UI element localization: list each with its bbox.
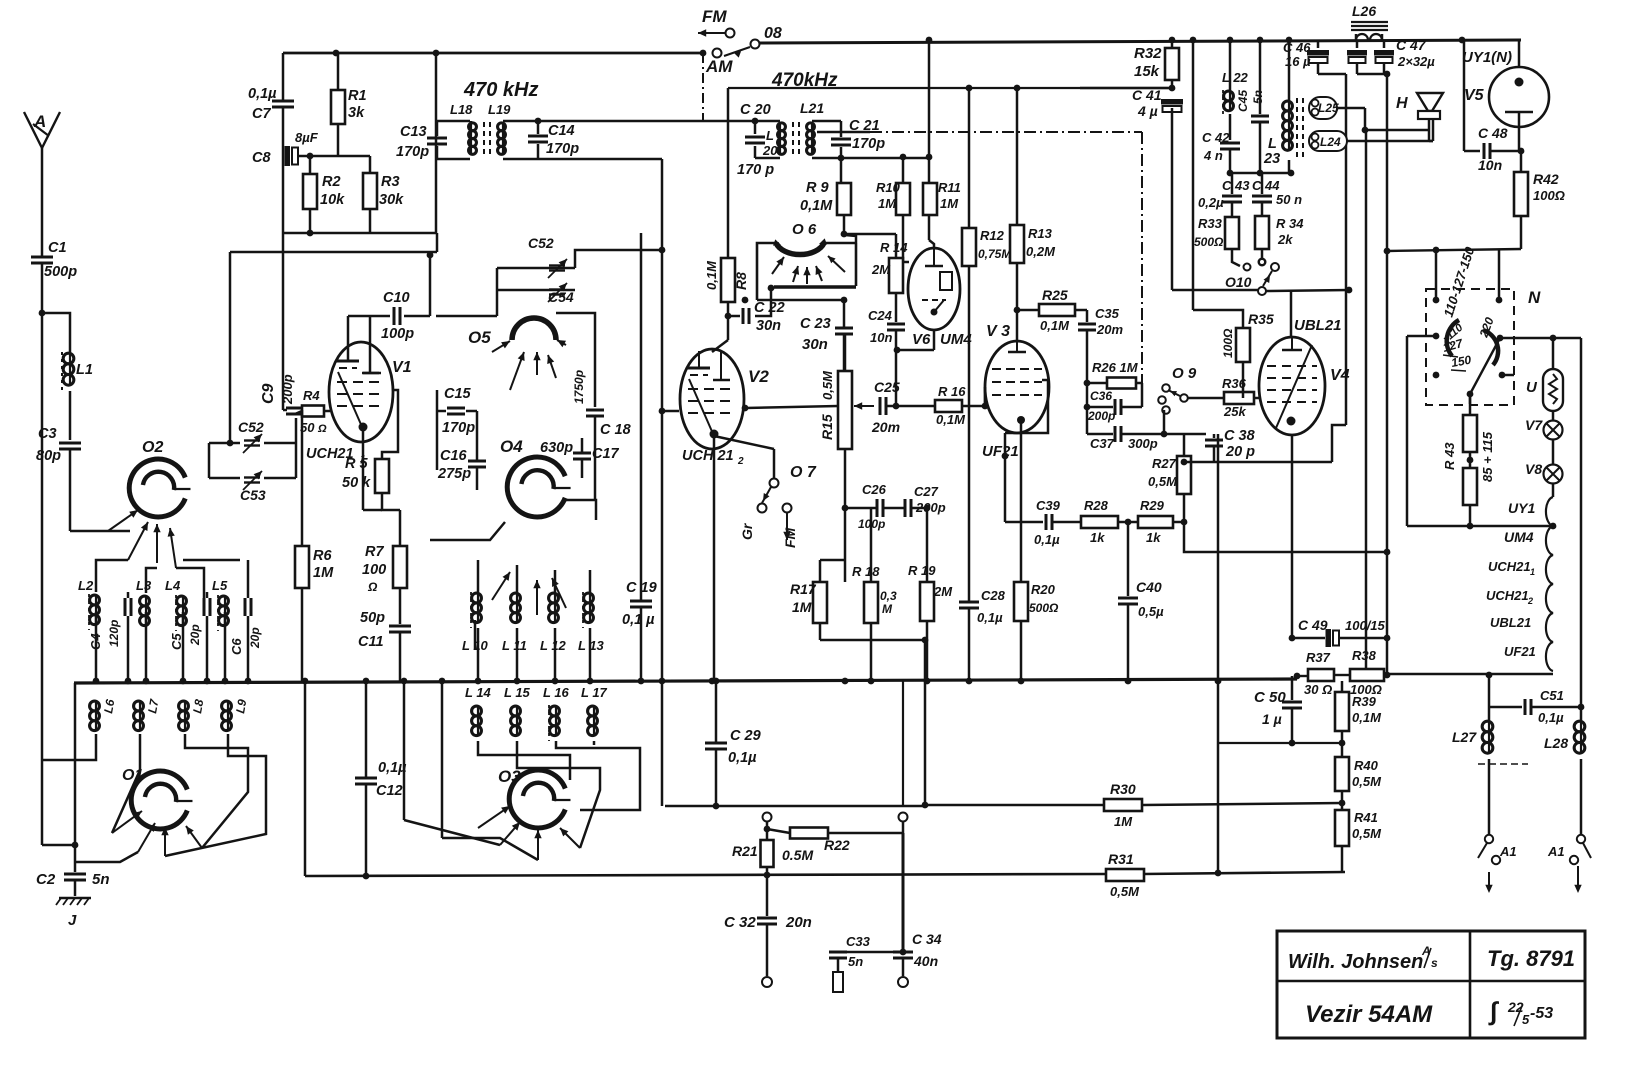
svg-text:UCH 21: UCH 21 (682, 448, 734, 464)
svg-text:20p: 20p (248, 627, 262, 649)
wire O10 out (1172, 289, 1258, 292)
capacitor C20 170p (752, 118, 759, 125)
svg-text:R40: R40 (1354, 758, 1379, 773)
svg-text:0,1M: 0,1M (1040, 318, 1070, 333)
svg-text:C27: C27 (914, 484, 939, 499)
O5 arrows (536, 352, 538, 375)
resistor R17 1M (844, 508, 847, 582)
svg-text:0,5M: 0,5M (1352, 826, 1382, 841)
svg-text:C 23: C 23 (800, 316, 831, 332)
capacitor C16 275p (468, 460, 486, 463)
svg-text:L4: L4 (165, 578, 181, 593)
svg-text:0,75M: 0,75M (978, 247, 1012, 261)
coil L15 (511, 706, 521, 716)
capacitor C19 0.1u (640, 233, 643, 600)
svg-text:R 5: R 5 (345, 456, 369, 472)
svg-text:A1: A1 (1547, 844, 1565, 859)
capacitor C29 0.1u (715, 683, 718, 742)
svg-text:L25: L25 (1318, 101, 1339, 115)
svg-text:Gr: Gr (739, 522, 755, 540)
svg-text:5: 5 (1522, 1012, 1530, 1027)
svg-text:V6: V6 (912, 331, 931, 348)
wire C8 down (282, 156, 285, 410)
tube V3 UF21 (985, 341, 1049, 433)
wire middle verticals (661, 159, 664, 806)
svg-text:1750p: 1750p (572, 370, 586, 404)
svg-text:V1: V1 (392, 359, 412, 376)
svg-text:C1: C1 (48, 240, 67, 256)
capacitor C46 16u (1317, 40, 1320, 48)
resistor R14 2M (889, 258, 903, 293)
svg-text:170p: 170p (546, 141, 579, 157)
svg-text:L5: L5 (212, 578, 228, 593)
svg-text:300p: 300p (1128, 436, 1158, 451)
capacitor C50 1u (1291, 676, 1294, 700)
svg-text:C39: C39 (1036, 498, 1061, 513)
switch A1 left (1485, 835, 1493, 843)
svg-text:2M: 2M (871, 262, 891, 277)
svg-text:10n: 10n (1478, 157, 1502, 173)
svg-text:R 34: R 34 (1276, 216, 1304, 231)
selector contacts (1433, 297, 1440, 304)
capacitor C6 20p (244, 598, 247, 616)
wire R29 to right (1184, 522, 1387, 552)
wire V1 cathode (362, 430, 365, 510)
svg-text:L 11: L 11 (502, 638, 527, 653)
resistor R10 1M (902, 157, 905, 183)
capacitors C39 R28 R29 row (1005, 521, 1043, 524)
resistor R29 1k (1138, 516, 1173, 528)
svg-text:L2: L2 (78, 578, 94, 593)
wire top rail left (283, 52, 700, 55)
capacitor C10 100p (393, 307, 396, 325)
svg-text:L 12: L 12 (540, 638, 567, 653)
heater chain (1552, 483, 1555, 497)
svg-text:Vezir 54AM: Vezir 54AM (1305, 1001, 1433, 1028)
svg-text:C52: C52 (238, 419, 264, 435)
tube V5 UY1 (1489, 67, 1549, 127)
svg-text:C 34: C 34 (912, 931, 942, 947)
svg-text:R25: R25 (1042, 287, 1068, 303)
svg-text:0,5M: 0,5M (1148, 474, 1178, 489)
svg-text:C14: C14 (548, 123, 575, 139)
svg-text:1k: 1k (1090, 530, 1105, 545)
svg-text:R3: R3 (381, 174, 400, 190)
svg-text:0,1M: 0,1M (1352, 710, 1382, 725)
svg-text:N: N (1528, 288, 1541, 307)
svg-text:0,1µ: 0,1µ (378, 760, 407, 776)
svg-text:0,1µ: 0,1µ (248, 86, 277, 102)
svg-text:C11: C11 (358, 634, 384, 650)
coil L1 (63, 353, 74, 364)
svg-text:30n: 30n (756, 318, 781, 334)
svg-text:1 µ: 1 µ (1262, 711, 1282, 727)
lamp V8 (1544, 465, 1563, 484)
O9 wiring (1086, 383, 1089, 407)
IF2 core (792, 122, 794, 156)
svg-text:R10: R10 (876, 180, 901, 195)
svg-text:50 n: 50 n (1276, 192, 1302, 207)
resistor R18 0.3M (870, 508, 873, 582)
svg-text:170p: 170p (396, 144, 429, 160)
svg-text:O5: O5 (468, 328, 491, 347)
capacitor C47 2x32u (1356, 40, 1359, 48)
svg-text:R12: R12 (980, 228, 1005, 243)
O6 wiring (757, 299, 844, 302)
svg-text:C 38: C 38 (1224, 428, 1256, 444)
svg-text:100Ω: 100Ω (1221, 328, 1235, 358)
wire y252 to left trimmers (230, 251, 437, 254)
svg-text:C12: C12 (376, 783, 403, 799)
capacitor C41 4u (1161, 99, 1183, 105)
wire R15 bottom (844, 460, 847, 508)
V4 wiring (1290, 290, 1293, 337)
svg-text:s: s (1431, 956, 1438, 970)
selector arcs (1447, 320, 1459, 356)
svg-text:R22: R22 (824, 837, 850, 853)
svg-text:L 17: L 17 (581, 685, 608, 700)
svg-text:UM4: UM4 (1504, 529, 1534, 545)
capacitor C22 30n (725, 313, 732, 320)
svg-text:R2: R2 (322, 174, 341, 190)
coil L18 (436, 120, 470, 123)
svg-text:C 29: C 29 (730, 728, 761, 744)
coil L6 (90, 701, 100, 711)
wire left vertical to C2 (42, 844, 75, 847)
svg-text:C 22: C 22 (754, 300, 785, 316)
svg-text:C 43: C 43 (1222, 178, 1250, 193)
svg-text:R 18: R 18 (852, 564, 880, 579)
selector box dashed (1426, 289, 1514, 405)
capacitor C7 0.1u (282, 53, 285, 100)
L24 wiring (1347, 140, 1433, 143)
resistor R39 0.1M (1341, 681, 1344, 692)
svg-text:R15: R15 (819, 414, 835, 440)
bus y876 (305, 874, 1106, 876)
title block (1277, 931, 1585, 1038)
resistor R35 100ohm (1236, 328, 1250, 362)
O4 wiring (430, 522, 505, 540)
svg-text:80p: 80p (36, 448, 61, 464)
svg-text:R13: R13 (1028, 226, 1053, 241)
svg-text:1M: 1M (878, 196, 897, 211)
svg-text:R 9: R 9 (806, 180, 829, 196)
svg-text:C16: C16 (440, 448, 468, 464)
svg-text:C 50: C 50 (1254, 689, 1286, 706)
svg-text:Ω: Ω (317, 423, 327, 435)
capacitor C40 0.5u (1127, 522, 1130, 596)
svg-text:L9: L9 (233, 698, 249, 715)
svg-text:30 Ω: 30 Ω (1304, 682, 1332, 697)
svg-text:30k: 30k (379, 192, 404, 208)
trimmer C52 (497, 267, 575, 270)
svg-text:R29: R29 (1140, 498, 1165, 513)
svg-text:C15: C15 (444, 386, 472, 402)
coil L3 (140, 596, 150, 606)
svg-text:R7: R7 (365, 544, 384, 560)
svg-text:50p: 50p (360, 610, 385, 626)
coil L19 (498, 123, 506, 131)
svg-text:C40: C40 (1136, 579, 1162, 595)
capacitor C27 200p (904, 499, 907, 517)
wire AM dashdot (702, 53, 704, 121)
svg-text:V2: V2 (748, 367, 769, 386)
capacitor C21 170p (831, 138, 851, 141)
svg-text:1k: 1k (1146, 530, 1161, 545)
coil L2 (90, 595, 100, 605)
svg-text:C3: C3 (38, 426, 57, 442)
svg-text:L26: L26 (1352, 3, 1376, 19)
wire x1366 speaker return (1365, 130, 1368, 675)
svg-text:20: 20 (762, 143, 778, 158)
svg-text:C 42: C 42 (1202, 130, 1230, 145)
svg-text:0,5M: 0,5M (1110, 884, 1140, 899)
capacitor C37 300p (1086, 407, 1089, 434)
svg-text:25k: 25k (1223, 404, 1246, 419)
svg-text:0,5M: 0,5M (820, 370, 835, 400)
svg-text:20n: 20n (785, 914, 812, 931)
svg-text:U: U (1526, 379, 1538, 396)
coil L9 (222, 701, 232, 711)
bottom right rail (1297, 675, 1308, 677)
svg-text:R33: R33 (1198, 216, 1223, 231)
resistor R30 1M (925, 804, 1104, 807)
capacitor C4 120p (124, 598, 127, 616)
svg-text:C28: C28 (981, 588, 1006, 603)
resistor R7 100ohm (393, 546, 407, 588)
switch O5 arc (512, 318, 556, 340)
svg-text:R41: R41 (1354, 810, 1378, 825)
svg-text:1M: 1M (1114, 814, 1133, 829)
resistor R22 (767, 829, 790, 833)
wire top rail right (759, 40, 1521, 43)
resistor R34 2k (1255, 216, 1269, 249)
resistor R19 2M (926, 508, 929, 582)
svg-text:C 41: C 41 (1132, 87, 1162, 103)
svg-text:C26: C26 (862, 482, 887, 497)
resistor R42 100ohm (1520, 151, 1523, 172)
svg-text:1: 1 (1530, 567, 1535, 577)
svg-text:O 6: O 6 (792, 221, 817, 238)
svg-text:5n: 5n (848, 954, 863, 969)
svg-text:5n: 5n (92, 871, 110, 888)
svg-text:L6: L6 (101, 698, 117, 715)
svg-text:R21: R21 (732, 843, 758, 859)
svg-text:20p: 20p (188, 624, 202, 646)
svg-text:R6: R6 (313, 548, 332, 564)
svg-text:V 3: V 3 (986, 323, 1010, 340)
wire selector rail (1387, 249, 1521, 251)
capacitor C38 20p (1184, 433, 1206, 436)
dashed mark (1478, 763, 1528, 765)
wire x1346 plate feed (1345, 74, 1348, 425)
O1 arrows (112, 811, 142, 833)
capacitor C44 50n (1261, 173, 1264, 194)
tube V2 UCH21-2 (680, 349, 744, 449)
resistor R5 50k (382, 390, 398, 459)
svg-text:1M: 1M (313, 565, 334, 581)
svg-text:C51: C51 (1540, 688, 1564, 703)
svg-text:C25: C25 (874, 379, 900, 395)
resistor R40 0.5M (1335, 757, 1349, 791)
svg-text:R 14: R 14 (880, 240, 908, 255)
svg-text:L: L (766, 128, 774, 143)
svg-text:C35: C35 (1095, 306, 1120, 321)
svg-text:100p: 100p (381, 326, 414, 342)
wire antenna down (41, 313, 44, 845)
selector outer wiring (1407, 335, 1436, 338)
svg-text:V8: V8 (1525, 461, 1542, 477)
svg-text:40n: 40n (913, 953, 938, 969)
svg-text:A1: A1 (1499, 844, 1517, 859)
capacitor C15 170p (447, 407, 465, 410)
svg-text:C8: C8 (252, 150, 271, 166)
svg-text:0,1µ: 0,1µ (1538, 710, 1564, 725)
svg-text:0.5M: 0.5M (782, 847, 813, 863)
coil L16 (550, 706, 560, 716)
capacitor C23 30n (835, 327, 853, 330)
resistor R31 0.5M (1106, 869, 1144, 881)
bus bottom main (74, 679, 1297, 683)
wire C10 right (429, 252, 432, 316)
svg-text:200p: 200p (280, 374, 295, 405)
svg-text:10n: 10n (870, 330, 892, 345)
svg-text:R30: R30 (1110, 781, 1136, 797)
svg-text:AM: AM (705, 57, 733, 76)
svg-text:C 49: C 49 (1298, 617, 1328, 633)
svg-text:R 19: R 19 (908, 563, 936, 578)
wire junction down (436, 233, 439, 252)
svg-text:L18: L18 (450, 102, 473, 117)
svg-text:20 p: 20 p (1225, 444, 1255, 460)
svg-text:FM: FM (702, 7, 727, 26)
capacitor C25 20m (854, 405, 874, 407)
svg-text:85 + 115: 85 + 115 (1480, 431, 1495, 482)
svg-text:C52: C52 (528, 235, 554, 251)
svg-text:30n: 30n (802, 336, 828, 353)
svg-text:0,1µ: 0,1µ (728, 750, 757, 766)
svg-text:Ω: Ω (367, 580, 378, 594)
svg-text:L28: L28 (1544, 735, 1568, 751)
svg-text:C6: C6 (229, 638, 244, 655)
svg-text:0,1M: 0,1M (936, 412, 966, 427)
trimmer C53-54 (497, 289, 575, 292)
svg-text:C9: C9 (260, 383, 277, 404)
svg-text:C 18: C 18 (600, 422, 632, 438)
svg-text:0,1µ: 0,1µ (1034, 532, 1060, 547)
svg-text:Tg. 8791: Tg. 8791 (1487, 946, 1575, 971)
svg-text:3k: 3k (348, 105, 365, 121)
O3 wiring (478, 741, 570, 780)
capacitor C13 170p (427, 137, 447, 140)
svg-text:23: 23 (1263, 151, 1280, 167)
switch A1 right (1577, 835, 1585, 843)
resistor R16 0.1M (935, 400, 962, 412)
wire vertical x436 (435, 53, 438, 233)
coil L5 (219, 596, 229, 606)
svg-text:5n: 5n (1251, 90, 1265, 104)
resistor R6 1M (301, 410, 304, 546)
svg-text:R8: R8 (733, 272, 749, 290)
svg-text:UY1(N): UY1(N) (1462, 49, 1512, 66)
IF can box rail (728, 87, 1172, 89)
svg-text:FM: FM (782, 527, 798, 548)
capacitor C2 5n (64, 873, 86, 876)
switch O4 (507, 457, 565, 517)
resistor R2 10k (309, 156, 312, 174)
svg-text:1M: 1M (792, 599, 812, 615)
wire to L1 (42, 313, 70, 352)
coil L21 (807, 123, 815, 131)
svg-text:L 22: L 22 (1222, 70, 1249, 85)
wire O2 feeds (96, 560, 128, 592)
svg-text:275p: 275p (437, 466, 471, 482)
svg-text:500Ω: 500Ω (1194, 235, 1224, 249)
capacitor C12 0.1u (365, 683, 368, 777)
wire R2 R3 bottoms (283, 232, 436, 235)
svg-text:L 14: L 14 (465, 685, 492, 700)
capacitor C17 630p (573, 452, 591, 455)
svg-text:0,1 µ: 0,1 µ (622, 612, 655, 628)
coil L17 (588, 706, 598, 716)
capacitor C35 20m (1086, 310, 1089, 322)
svg-text:L 16: L 16 (543, 685, 570, 700)
svg-text:0,3: 0,3 (880, 589, 897, 603)
wire gram connector (665, 805, 925, 808)
svg-text:C 48: C 48 (1478, 125, 1508, 141)
heater junction wire (1407, 525, 1553, 528)
svg-text:UF21: UF21 (1504, 644, 1536, 659)
svg-text:L 15: L 15 (504, 685, 531, 700)
svg-text:V7: V7 (1525, 417, 1543, 433)
svg-text:O 7: O 7 (790, 464, 817, 481)
svg-text:L19: L19 (488, 102, 511, 117)
svg-text:J: J (68, 912, 77, 929)
resistor R3 30k (369, 156, 372, 173)
svg-text:O3: O3 (498, 767, 521, 786)
svg-text:4 µ: 4 µ (1137, 103, 1158, 119)
svg-text:C 46: C 46 (1283, 40, 1311, 55)
capacitor C32 20n (766, 875, 769, 916)
svg-text:R39: R39 (1352, 694, 1377, 709)
svg-text:0,1µ: 0,1µ (977, 610, 1003, 625)
coil L23 (1283, 101, 1293, 111)
capacitor C14 170p (528, 135, 548, 138)
capacitor C5 20p (203, 598, 206, 616)
lamp V7 (1544, 421, 1563, 440)
svg-text:Wilh. Johnsen: Wilh. Johnsen (1288, 951, 1423, 973)
resistor R21 0.5M (766, 821, 769, 840)
switch O3 (509, 770, 565, 828)
capacitor C51 0.1u (1488, 674, 1491, 707)
wire x305 bus drop (304, 683, 307, 876)
ground J (59, 897, 91, 900)
resistor R13 0.2M (1016, 88, 1019, 225)
svg-text:R35: R35 (1248, 311, 1274, 327)
svg-text:L8: L8 (190, 698, 206, 715)
svg-text:0,1M: 0,1M (800, 198, 833, 214)
svg-text:C7: C7 (252, 106, 271, 122)
svg-text:200p: 200p (1087, 409, 1115, 423)
wire x1389 (1384, 549, 1391, 556)
svg-text:R38: R38 (1352, 648, 1377, 663)
V3 wiring (984, 387, 987, 406)
svg-text:O4: O4 (500, 437, 523, 456)
svg-text:UBL21: UBL21 (1490, 615, 1531, 630)
capacitor C8 8uF (285, 146, 291, 166)
svg-text:L 13: L 13 (578, 638, 605, 653)
capacitor C33 5n (838, 951, 903, 954)
